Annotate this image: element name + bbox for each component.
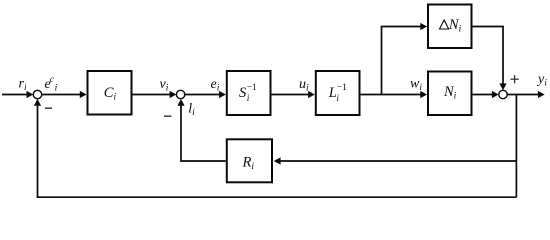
wire outer feedback bottom bbox=[38, 105, 517, 197]
summing junction 2 bbox=[176, 90, 184, 98]
block S_i^-1 bbox=[227, 71, 271, 115]
svg-text:i: i bbox=[55, 84, 58, 94]
wire C to junction 2 bbox=[133, 94, 171, 96]
wire S to L bbox=[272, 94, 309, 96]
block C_i bbox=[88, 71, 132, 115]
svg-text:−1: −1 bbox=[247, 83, 257, 93]
arrowhead into S bbox=[219, 91, 226, 98]
block N_i bbox=[428, 72, 472, 116]
wire input r bbox=[2, 94, 27, 96]
summing junction 1 bbox=[33, 90, 41, 98]
block L_i^-1 bbox=[316, 71, 360, 115]
arrowhead into N bbox=[420, 91, 427, 98]
wire branch up from node to DeltaN bbox=[382, 27, 421, 95]
wire N to junction 3 bbox=[473, 94, 493, 96]
arrowhead output bbox=[538, 91, 545, 98]
arrowhead into C bbox=[80, 91, 87, 98]
arrowhead into junction 2 from below bbox=[177, 99, 184, 106]
arrowhead into junction 3 from top bbox=[499, 83, 506, 90]
wire junction1 to C bbox=[42, 94, 80, 96]
svg-text:i: i bbox=[336, 94, 339, 104]
arrowhead into junction 2 bbox=[170, 91, 177, 98]
block R_i bbox=[227, 139, 272, 182]
arrowhead into junction 3 from left bbox=[492, 91, 499, 98]
summing junction 3 bbox=[499, 90, 507, 98]
wire output y bbox=[507, 94, 538, 96]
wire junction2 to S bbox=[185, 94, 220, 96]
wire R output left and up to junction 2 bbox=[181, 105, 226, 161]
svg-text:−1: −1 bbox=[337, 83, 347, 93]
arrowhead into R from right bbox=[274, 157, 281, 164]
label DeltaN_i : triangle bbox=[440, 20, 449, 29]
block DeltaN_i bbox=[428, 5, 472, 49]
arrowhead into summing junction 1 bbox=[27, 91, 34, 98]
arrowhead into junction 1 from below bbox=[34, 99, 41, 106]
minus sign at junction 1 bbox=[45, 107, 52, 109]
wire feedback drop from output bbox=[515, 95, 517, 198]
arrowhead into L bbox=[308, 91, 315, 98]
plus sign at junction 3 bbox=[511, 75, 519, 83]
svg-text:i: i bbox=[247, 94, 250, 104]
arrowhead into DeltaN bbox=[420, 23, 427, 30]
wire feedback to R bbox=[280, 160, 516, 162]
wire DeltaN output down to junction 3 bbox=[472, 27, 503, 84]
wire L to N bbox=[361, 94, 421, 96]
minus sign at junction 2 bbox=[164, 115, 171, 117]
